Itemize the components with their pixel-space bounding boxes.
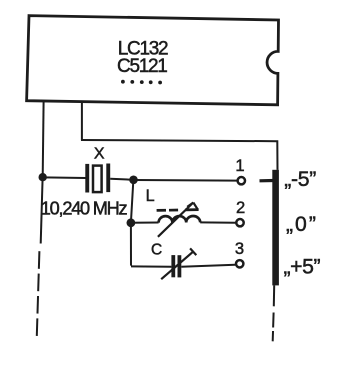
- svg-text:3: 3: [235, 239, 244, 258]
- IC U1 body (LC132 / C5121): [27, 16, 279, 105]
- svg-text:1: 1: [235, 156, 244, 175]
- wire spine below node A: [41, 178, 43, 244]
- wire node B to terminal 1: [135, 179, 237, 182]
- svg-text:2: 2: [236, 198, 245, 217]
- wiper from terminal 1 to scale bar: [260, 179, 274, 183]
- wire pin2 horizontal run to scale: [81, 140, 278, 170]
- wire corner to capacitor: [131, 265, 171, 267]
- svg-text:10,240 MHz: 10,240 MHz: [41, 198, 128, 218]
- wire inductor to terminal 2: [200, 221, 235, 223]
- wire IC pin 1 down: [42, 101, 45, 176]
- crystal X: [85, 164, 110, 193]
- node B junction: [129, 176, 138, 185]
- IC pin dots: [121, 80, 162, 85]
- wire node A to crystal: [43, 176, 86, 179]
- wire capacitor to terminal 3: [181, 265, 235, 267]
- dashed continuation bottom left: [37, 251, 40, 336]
- node L junction: [126, 218, 135, 227]
- inductor dashed adjustment line: [157, 208, 199, 211]
- node A junction: [39, 173, 47, 181]
- inductor L: [159, 216, 201, 223]
- capacitor adjustment arrow: [161, 248, 196, 279]
- svg-text:„0”: „0”: [286, 213, 318, 236]
- terminal 1 circle: [238, 177, 245, 184]
- svg-text:„+5”: „+5”: [284, 256, 321, 279]
- wire spine node B down to C corner: [131, 181, 133, 266]
- capacitor C (variable): [171, 255, 181, 277]
- wire junction to inductor: [132, 222, 159, 224]
- svg-text:C: C: [151, 242, 162, 259]
- dashed continuation bottom right: [272, 313, 275, 342]
- wire crystal to node B: [110, 178, 132, 181]
- svg-text:L: L: [146, 187, 155, 205]
- terminal 2 circle: [236, 219, 243, 226]
- wire below scale bar: [273, 285, 275, 306]
- svg-text:„-5”: „-5”: [284, 168, 316, 191]
- scale bar: [272, 170, 279, 286]
- svg-text:C5121: C5121: [117, 56, 167, 77]
- svg-text:X: X: [94, 145, 105, 162]
- wire IC pin 2 down: [81, 102, 83, 140]
- inductor adjustment arrow: [158, 203, 198, 237]
- terminal 3 circle: [236, 260, 243, 267]
